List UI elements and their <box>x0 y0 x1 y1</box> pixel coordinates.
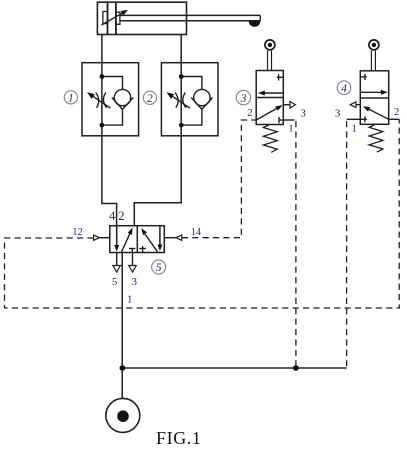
valve U5 body (5/2 valve) <box>110 226 165 253</box>
V1 adjust arrow <box>87 92 111 108</box>
V1 throttle arcs <box>96 93 107 108</box>
pilot line from valve 3 port2 to pilot 14 (dashed) <box>182 120 256 238</box>
V1 node dots <box>100 74 105 79</box>
port number labels <box>72 106 399 305</box>
U4 exhaust port 3 <box>350 102 360 108</box>
svg-text:4: 4 <box>341 83 347 95</box>
valve 4 supply drop (dashed) <box>346 121 348 368</box>
svg-text:4: 4 <box>109 209 116 223</box>
U3 port 1 blocked T and stub <box>279 117 295 123</box>
pilot line from valve 4 port2 to pilot 12 (dashed) <box>5 119 400 308</box>
svg-text:2: 2 <box>394 106 400 118</box>
U3 bottom box diagonal arrow (2 to 3) <box>256 105 282 120</box>
V2 check valve branch <box>181 77 212 126</box>
valve U4 button actuator <box>369 40 379 71</box>
label circle 5 <box>152 260 166 274</box>
U4 bottom box diagonal arrow (2 to 3) <box>363 106 389 119</box>
U4 port 1 blocked T and stub <box>347 116 367 122</box>
wire: cylinder right port to valve 5 port 2 <box>134 35 181 227</box>
svg-text:2: 2 <box>118 209 124 223</box>
svg-text:2: 2 <box>147 93 153 105</box>
U5 right box blocked port T <box>139 246 146 253</box>
U5 exhaust port 5 <box>113 253 121 273</box>
pump / pressure source <box>106 398 140 432</box>
valve U4 body (3/2 valve) <box>360 71 388 125</box>
U4 top box blocked T <box>360 74 367 80</box>
U5 left box blocked port T <box>129 249 135 253</box>
U3 exhaust port 3 <box>283 101 295 108</box>
valve U3 body (3/2 valve) <box>256 71 283 125</box>
rod-end ball <box>249 21 261 27</box>
piston rod <box>120 15 260 20</box>
V2 adjust arrow <box>166 92 190 108</box>
cushion-adjust arrow <box>102 10 129 25</box>
svg-text:FIG.1: FIG.1 <box>156 428 202 448</box>
svg-text:12: 12 <box>72 227 83 238</box>
flow control valve V2 enclosure <box>161 63 218 136</box>
label circle 4 <box>337 81 351 95</box>
svg-text:5: 5 <box>156 262 162 274</box>
U5 exhaust port 3 <box>129 253 137 273</box>
svg-text:3: 3 <box>131 276 137 288</box>
valve 3 supply drop (dashed) <box>295 121 297 368</box>
label circle 3 <box>236 90 250 104</box>
U5 left box down arrow <box>114 226 119 252</box>
wire: supply port 1 down to pump <box>121 253 123 399</box>
svg-text:3: 3 <box>240 93 247 105</box>
U3 top box blocked T <box>277 74 284 80</box>
U5 right box diagonal arrow <box>141 228 157 252</box>
U4 port 2 stub <box>389 118 400 120</box>
svg-text:1: 1 <box>68 92 74 104</box>
V2 throttle arcs <box>175 93 186 108</box>
flow control valve V1 enclosure <box>82 63 139 136</box>
svg-text:5: 5 <box>112 276 118 288</box>
wire: cylinder left port to valve 5 port 4 <box>102 35 117 227</box>
svg-text:1: 1 <box>127 294 133 306</box>
wire: supply horizontal run <box>122 367 346 369</box>
label circle 1 <box>64 91 77 105</box>
U5 pilot 12 triangle <box>94 235 110 240</box>
U5 pilot 14 triangle <box>164 235 182 240</box>
junction at pump <box>120 365 126 371</box>
svg-text:2: 2 <box>247 107 253 119</box>
V2 node dots <box>179 74 184 79</box>
svg-text:3: 3 <box>300 107 306 119</box>
U3 return spring <box>263 125 277 153</box>
svg-text:1: 1 <box>351 122 357 134</box>
svg-text:14: 14 <box>191 227 202 238</box>
cylinder (double-acting, adjustable cushion) <box>97 2 186 34</box>
U4 return spring <box>369 124 383 152</box>
V1 check valve branch <box>102 77 133 126</box>
svg-text:3: 3 <box>335 108 341 120</box>
U5 left box diagonal arrow <box>121 228 132 253</box>
U4 top box right arrow <box>360 90 388 95</box>
U3 top box left arrow <box>258 91 283 96</box>
junction at valve 3 supply <box>293 365 299 371</box>
valve U3 button actuator <box>265 40 275 71</box>
U5 right box down arrow <box>157 226 162 251</box>
label circle 2 <box>143 91 156 105</box>
svg-text:1: 1 <box>288 122 294 134</box>
